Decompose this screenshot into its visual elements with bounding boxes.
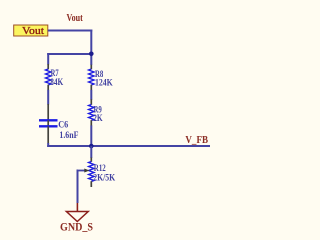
wire wiper to ground [77,171,80,204]
resistor R7 [46,64,51,90]
port Vout [14,25,48,36]
R12 wiper arrow [78,169,90,173]
resistor R8 [89,65,94,91]
svg-text:124K: 124K [95,77,113,88]
wire main vertical top [90,30,92,66]
svg-text:GND_S: GND_S [60,221,93,233]
svg-text:1.6nF: 1.6nF [59,130,78,141]
svg-text:Vout: Vout [67,12,84,24]
svg-text:2K: 2K [93,113,103,124]
wire V_FB horizontal [47,145,210,147]
svg-text:C6: C6 [58,119,68,130]
wire C6 to VFB corner [47,143,49,147]
wire VFB to R12 [90,146,92,158]
ground GND_S [66,203,88,222]
wire left column top [47,53,49,65]
wire R9 to VFB junction [90,125,92,147]
svg-text:V_FB: V_FB [185,134,208,146]
svg-text:Vout: Vout [22,25,44,37]
svg-text:2K/5K: 2K/5K [93,172,115,183]
wire between R8 and R9 [90,90,92,100]
svg-text:84K: 84K [50,77,63,88]
wire left column mid [47,90,49,105]
wire branch horizontal [47,53,91,55]
resistor R12 (adjustable) [89,158,94,188]
resistor R9 [89,99,94,126]
capacitor C6 [39,104,58,144]
node junction at VFB [89,144,94,149]
wire port to main vertical [48,30,93,32]
node junction at branch [89,52,94,57]
